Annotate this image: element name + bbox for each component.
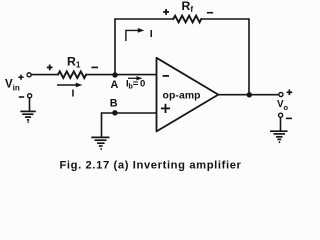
- wire: feedback right vertical down to output node: [248, 19, 250, 95]
- wire: Vin- terminal to ground: [29, 98, 31, 111]
- svg-text:0: 0: [140, 78, 145, 89]
- wire: R1 to node A: [86, 74, 115, 76]
- ground (output, below Vo-): [270, 131, 288, 142]
- svg-text:A: A: [111, 79, 119, 91]
- polarity minus at Vin- terminal: [19, 96, 24, 98]
- svg-text:=: =: [133, 78, 139, 89]
- wire: node A to op-amp inverting input: [115, 74, 156, 76]
- polarity minus right of Rf: [207, 12, 213, 14]
- wire: Vin+ terminal to R1: [32, 74, 58, 76]
- wire: Vo- terminal to ground: [280, 118, 282, 131]
- svg-text:Fig. 2.17 (a) Inverting amplif: Fig. 2.17 (a) Inverting amplifier: [59, 160, 241, 172]
- wire: non-inverting input (B) horizontal: [102, 112, 157, 114]
- terminal Vo-: [279, 113, 283, 117]
- current arrow I in feedback loop: [126, 28, 144, 41]
- op-amp U1 triangle: [157, 58, 219, 132]
- node A junction dot: [112, 72, 117, 77]
- op-amp non-inverting input marking (plus): [161, 104, 170, 113]
- wire: node A up to feedback line: [114, 19, 116, 75]
- node B junction dot: [112, 110, 117, 115]
- svg-text:I: I: [150, 28, 153, 40]
- resistor Rf: [173, 16, 201, 23]
- wire: op-amp output to Vo+ terminal: [218, 94, 278, 96]
- wire: Rf to right corner: [201, 18, 249, 20]
- ground (input, below Vin-): [20, 111, 36, 122]
- op-amp inverting input marking (minus): [163, 75, 169, 77]
- wire: B ground leg: [101, 113, 103, 137]
- polarity minus right of R1: [91, 66, 98, 68]
- polarity plus left of R1: [47, 65, 53, 71]
- ground (node B): [91, 137, 109, 149]
- polarity plus at Vin+ terminal: [18, 75, 23, 80]
- svg-text:op-amp: op-amp: [163, 91, 201, 102]
- svg-text:I: I: [72, 88, 75, 100]
- resistor R1: [58, 71, 86, 78]
- polarity plus left of Rf: [163, 9, 169, 15]
- node: output junction dot: [247, 92, 252, 97]
- svg-text:B: B: [110, 98, 118, 110]
- current arrow I through R1: [57, 83, 82, 88]
- polarity plus at Vo+ terminal: [287, 90, 293, 96]
- terminal Vin-: [28, 94, 32, 98]
- terminal Vo+: [279, 92, 283, 96]
- polarity minus at Vo- terminal: [286, 117, 292, 119]
- wire: feedback top, corner to Rf: [115, 18, 173, 20]
- current arrow Ib into op-amp: [128, 76, 142, 80]
- terminal Vin+: [27, 73, 31, 77]
